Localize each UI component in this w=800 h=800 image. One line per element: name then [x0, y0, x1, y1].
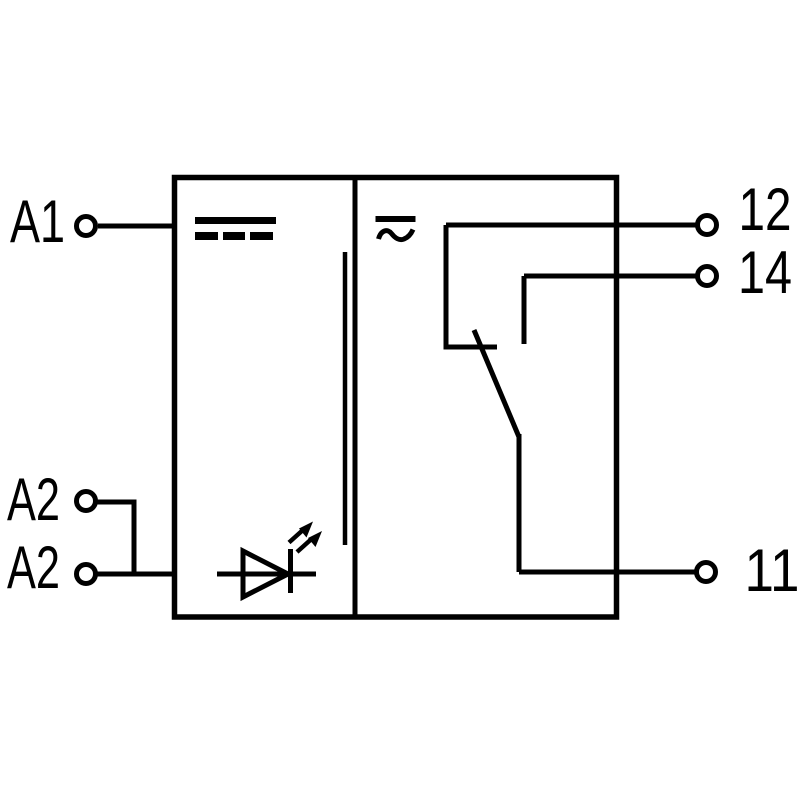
svg-text:14: 14: [738, 239, 792, 306]
svg-text:A1: A1: [10, 188, 65, 255]
svg-text:12: 12: [739, 176, 792, 243]
svg-text:A2: A2: [7, 466, 60, 533]
svg-text:A2: A2: [7, 534, 60, 601]
svg-text:11: 11: [745, 537, 800, 604]
